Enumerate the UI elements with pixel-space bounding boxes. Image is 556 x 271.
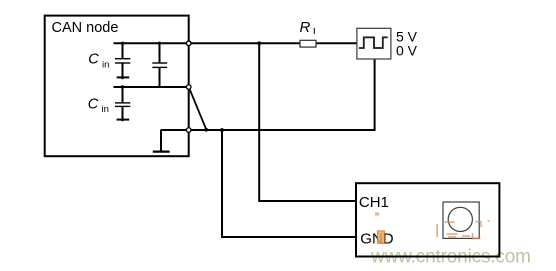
capacitor C2 (Cin, CANH to CANL) (152, 43, 167, 87)
pin circle GND (186, 128, 191, 133)
junction dot at C1 top (121, 42, 124, 45)
wire ground net y=130 with riser to generator (161, 59, 375, 130)
junction dot switch landing (205, 128, 209, 132)
wire GND tap (222, 130, 356, 237)
junction dot CH1 tap (257, 41, 261, 45)
junction dot GND tap (220, 128, 224, 132)
BNC connector circle (448, 207, 472, 231)
wire CH1 tap (259, 43, 356, 201)
resistor Rl body (300, 40, 316, 47)
svg-text:CAN node: CAN node (52, 20, 119, 36)
wire top net (CANH) y=43.3 (114, 42, 358, 44)
pulse waveform (359, 37, 388, 48)
svg-text:in: in (102, 104, 109, 115)
capacitor C1 (Cin, CANH to gnd) (115, 43, 130, 79)
svg-text:in: in (102, 59, 109, 70)
wire ground stub inside CAN node (160, 130, 162, 152)
pin circle CANL (186, 85, 191, 90)
ground bar inside CAN node (153, 151, 170, 153)
switch arm (CANL pin to ground wire) (190, 89, 207, 129)
svg-text:R: R (300, 19, 311, 36)
CAN node box (45, 16, 189, 157)
oscilloscope box (356, 183, 499, 256)
svg-text:C: C (88, 51, 99, 67)
watermark orange fragment above GND (375, 212, 379, 215)
junction dot at C2 top (158, 42, 161, 45)
svg-text:CH1: CH1 (359, 194, 389, 211)
watermark orange fragments near BNC (437, 221, 489, 240)
watermark orange fragment over GND D (377, 231, 384, 243)
svg-text:C: C (88, 96, 99, 112)
BNC connector square (443, 202, 479, 238)
junction dot at C3 top (121, 85, 124, 88)
capacitor C3 (Cin, CANL to gnd) (115, 87, 130, 121)
wire middle net (CANL) y=87 (114, 86, 189, 88)
pin circle CANH (186, 41, 191, 46)
pulse generator box (357, 28, 391, 59)
svg-text:0 V: 0 V (396, 43, 418, 59)
